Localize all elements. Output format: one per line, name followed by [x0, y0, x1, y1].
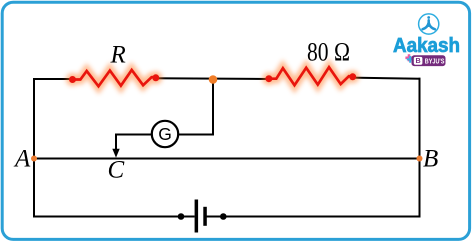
wire top-middle segment	[155, 77, 270, 80]
node junction (top middle)	[209, 75, 218, 84]
svg-text:B: B	[415, 56, 420, 65]
wire top-left segment	[33, 78, 74, 80]
wire bottom-right segment	[207, 216, 421, 218]
wire bottom-left segment	[33, 216, 195, 218]
arrow into node C	[112, 149, 119, 158]
svg-text:C: C	[108, 157, 125, 184]
svg-text:Aakash: Aakash	[393, 35, 460, 57]
svg-text:80 Ω: 80 Ω	[307, 38, 350, 67]
wire right vertical	[419, 78, 421, 218]
node B	[417, 156, 423, 162]
svg-text:R: R	[110, 42, 126, 69]
wire left vertical	[33, 78, 35, 218]
wire A to B	[33, 158, 421, 160]
svg-text:BYJU'S: BYJU'S	[425, 57, 445, 66]
wire top-right segment	[351, 78, 421, 79]
galvanometer G	[152, 121, 178, 147]
node A	[31, 156, 37, 162]
resistor R	[66, 70, 162, 86]
resistor 80 ohm	[262, 67, 359, 85]
wire galvanometer to arrow	[116, 135, 152, 151]
svg-text:G: G	[158, 124, 172, 144]
svg-text:A: A	[13, 145, 31, 172]
svg-text:B: B	[423, 145, 438, 172]
wire junction to galvanometer vertical	[178, 80, 213, 135]
logo Aakash BYJU'S	[393, 14, 460, 66]
battery cell	[178, 200, 227, 233]
